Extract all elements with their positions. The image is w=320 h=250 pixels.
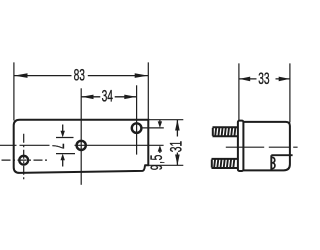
dim 33 extension lines: [239, 63, 290, 122]
centerline side view: [226, 146, 298, 148]
lower stud: [212, 159, 239, 168]
dim 9.5 bottom arrow (up): [159, 150, 161, 153]
dim 31 line: [176, 120, 178, 166]
clip detail: [271, 155, 292, 170]
dim 7 top arrow: [62, 125, 64, 132]
dim 34 arrow right: [124, 95, 136, 100]
svg-text:9,5: 9,5: [148, 154, 166, 170]
dim 7 bottom arrow: [62, 160, 64, 167]
svg-text:31: 31: [167, 141, 185, 152]
centerline vertical upper hole / 34 right extension: [136, 85, 138, 154]
dim 31 ticks: [148, 120, 183, 166]
dim 31 arrow down: [175, 155, 180, 166]
dim 7 ticks: [56, 138, 75, 154]
centerline horizontal upper hole / 9.5 upper tick: [142, 127, 164, 129]
dim 33 line: [239, 78, 290, 80]
hole middle (7mm): [77, 141, 86, 150]
centerline horizontal middle hole: [0, 144, 164, 146]
dim 9.5 top arrow (down): [159, 120, 161, 123]
svg-text:34: 34: [102, 87, 114, 105]
svg-text:33: 33: [258, 69, 270, 87]
dim 31 arrow up: [175, 120, 180, 131]
dim 83 line: [14, 75, 148, 77]
dim 33 arrow right: [279, 77, 290, 82]
svg-text:7: 7: [49, 143, 67, 149]
centerline vertical left hole: [23, 134, 25, 181]
side view body: [244, 122, 290, 170]
dim 83 arrow right: [135, 73, 148, 78]
dim 34 line: [82, 96, 137, 98]
dim 34 arrow left: [82, 95, 94, 100]
centerline horizontal left hole: [2, 159, 50, 161]
side view flange: [238, 121, 244, 171]
dim 33 arrow left: [239, 77, 250, 82]
mounting plate outline (front view): [14, 120, 149, 173]
dim 83 extension lines: [14, 62, 148, 120]
hole left: [19, 156, 28, 165]
upper stud: [213, 127, 239, 136]
hole upper right: [132, 123, 142, 133]
svg-text:83: 83: [74, 66, 86, 84]
centerline vertical middle hole / 34 left extension: [80, 88, 82, 185]
dim 83 arrow left: [14, 73, 27, 78]
